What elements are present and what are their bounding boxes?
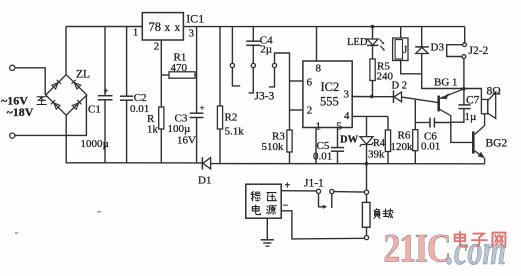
wire bridge + output to rail [65, 27, 67, 75]
wire relay/D3 node to emitter node [422, 74, 464, 89]
terminal AC input bottom [10, 133, 15, 138]
wire AC top to bridge left vertex [15, 68, 45, 95]
diode D1 [198, 157, 211, 186]
contact J1-1 right [330, 189, 334, 208]
resistor R6 120k [391, 130, 418, 164]
svg-text:555: 555 [320, 95, 339, 109]
svg-text:8: 8 [316, 63, 322, 75]
junction dot bus to load [365, 162, 369, 166]
resistor R4 39k [368, 116, 391, 163]
svg-text:+: + [285, 181, 291, 192]
label J3-3 [255, 91, 275, 103]
speck [97, 211, 101, 212]
svg-text:1µ: 1µ [465, 111, 477, 123]
svg-text:R6: R6 [398, 130, 411, 142]
box regulated power supply [246, 184, 281, 218]
svg-text:4: 4 [344, 110, 350, 122]
resistor R2 5.1k [217, 27, 244, 164]
svg-text:R4: R4 [373, 138, 385, 149]
capacitor C7 1u [451, 89, 480, 123]
wire bridge - output to ground bus [65, 115, 67, 163]
svg-text:J1-1: J1-1 [304, 178, 324, 190]
transistor BG2 NPN [472, 114, 507, 164]
svg-text:78: 78 [149, 20, 162, 34]
junction dot LED on rail [371, 25, 375, 29]
switch J3-3 contact 3 [269, 63, 277, 87]
LED [347, 27, 385, 51]
svg-text:21IC: 21IC [383, 227, 450, 271]
relay J coil [393, 27, 408, 61]
svg-text:J3-3: J3-3 [255, 91, 275, 103]
svg-text:J: J [403, 45, 407, 56]
ground [261, 218, 274, 246]
wire bus down to load node [366, 164, 368, 191]
transistor BG1 PNP [434, 77, 464, 123]
svg-text:3: 3 [189, 27, 195, 39]
watermark 21IC [383, 226, 506, 273]
resistor R5 240 [370, 45, 394, 96]
svg-text:R2: R2 [225, 112, 238, 124]
wire 555 pin2 stub [290, 109, 303, 111]
connector J2-2 [447, 43, 489, 59]
speaker 8 ohm [464, 86, 501, 119]
resistor R1 470 [161, 52, 196, 79]
svg-text:16V: 16V [177, 135, 196, 147]
svg-text:x: x [175, 22, 181, 34]
wire relay J bottom [401, 61, 422, 74]
svg-text:+: + [200, 103, 205, 113]
wire J3-3 contact 3 to 555 pins 2 and 6 [275, 53, 290, 130]
capacitor C4 2u [246, 35, 273, 64]
wire AC bottom to bridge right vertex [15, 95, 87, 135]
svg-text:ZL: ZL [76, 69, 90, 81]
svg-text:~18V: ~18V [7, 105, 34, 119]
wire rail to 555 pin8 [316, 27, 318, 61]
wire ground bus right segment [211, 163, 485, 165]
svg-text:D 2: D 2 [392, 81, 407, 92]
wire ground bus left segment [66, 162, 203, 164]
bridge rectifier ZL [46, 69, 90, 116]
wire IC1 pin2 down [160, 40, 162, 107]
wire BG1 collector to BG2 base [451, 122, 472, 142]
wire 555 pin6 stub [290, 80, 303, 82]
wire D2 to BG1 base [402, 97, 438, 102]
svg-text:39k: 39k [368, 149, 385, 161]
diode D2 [392, 81, 407, 104]
resistor R 1k [147, 107, 164, 163]
svg-text:470: 470 [171, 62, 188, 74]
svg-text:J2-2: J2-2 [469, 45, 489, 57]
svg-text:+: + [104, 86, 109, 96]
svg-text:C7: C7 [466, 95, 480, 107]
resistor R3 510k [262, 130, 293, 164]
svg-text:1k: 1k [147, 124, 159, 136]
junction dot BG1 emitter node [462, 87, 466, 91]
wire J1-1 to load [334, 191, 365, 194]
svg-text:120k: 120k [391, 141, 414, 153]
svg-text:C1: C1 [88, 104, 101, 116]
watermark dianziwang [455, 232, 506, 247]
junction dot LED/R5 on pin3 wire [370, 95, 374, 99]
svg-text:1: 1 [133, 26, 139, 38]
wire regulated supply + to J1-1 [281, 190, 316, 192]
svg-text:100µ: 100µ [168, 123, 191, 135]
svg-text:5.1k: 5.1k [225, 126, 245, 138]
terminal AC input top [10, 65, 15, 70]
wire 555 pin1 to bus [315, 128, 317, 164]
terminal load top [364, 190, 368, 194]
zener DW [340, 116, 373, 163]
svg-text:2: 2 [154, 40, 160, 52]
svg-text:2: 2 [307, 105, 313, 117]
wire rail corner down to J2-2 [464, 27, 466, 43]
speck [15, 232, 18, 234]
svg-text:LED: LED [347, 37, 368, 48]
wire rail to J3-3 contact 1 [231, 27, 233, 64]
wire 555 pin4 to R4 [352, 115, 388, 117]
svg-text:0.01: 0.01 [421, 141, 440, 153]
label minus [283, 201, 289, 212]
wire rail to R1/C3 node [196, 27, 198, 113]
capacitor C3 100u 16V [168, 103, 205, 163]
svg-text:−: − [283, 201, 289, 212]
wire output +rail from IC1 pin3 to J2-2 [183, 26, 464, 28]
svg-text:BG 1: BG 1 [434, 77, 458, 89]
svg-text:3: 3 [344, 89, 350, 101]
switch J3-3 contact 1 [230, 63, 240, 86]
wire BG1 base tap down to R6 [414, 100, 416, 130]
svg-text:510k: 510k [262, 141, 285, 153]
svg-text:1000µ: 1000µ [81, 138, 109, 150]
capacitor C5 0.01 [313, 128, 344, 164]
capacitor C2 0.01 [120, 27, 149, 163]
regulator IC1 78xx [133, 11, 204, 52]
capacitor C6 0.01 [415, 118, 451, 153]
svg-text:D3: D3 [431, 42, 445, 54]
svg-text:BG2: BG2 [486, 138, 508, 150]
timer IC2 555 [303, 61, 352, 133]
svg-text:8Ω: 8Ω [487, 86, 501, 98]
contact J1-1 left [316, 189, 327, 209]
svg-text:IC2: IC2 [321, 80, 340, 94]
wire input +rail from bridge to IC1 pin1 [66, 26, 143, 28]
svg-text:DW: DW [340, 135, 359, 146]
label ~16V zhi ~18V [1, 94, 46, 120]
svg-text:IC1: IC1 [186, 11, 204, 25]
wire regulated supply - to load bottom [281, 211, 364, 239]
svg-text:D1: D1 [198, 175, 211, 187]
svg-text:x: x [165, 22, 171, 34]
svg-text:0.01: 0.01 [313, 151, 332, 163]
svg-text:6: 6 [307, 77, 313, 89]
load resistor [362, 194, 392, 239]
label J1-1 [304, 178, 324, 190]
wire J2-2 to emitter node [463, 58, 465, 88]
switch J3-3 contact 2 [249, 63, 256, 93]
wire 555 pin3 to D2 [352, 96, 393, 98]
svg-text:2µ: 2µ [260, 44, 272, 56]
capacitor C1 1000u [81, 27, 113, 163]
wire rail to C4 [252, 27, 254, 41]
diode D3 [415, 27, 444, 74]
label plus [285, 181, 291, 192]
